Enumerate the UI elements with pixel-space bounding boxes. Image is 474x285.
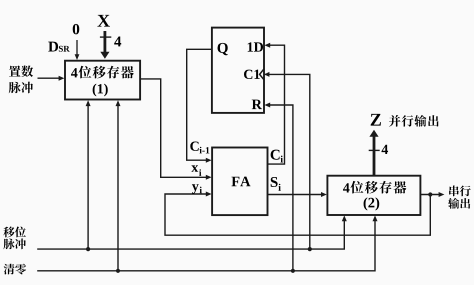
- bus wire X into register 1 (4-bit): [100, 31, 109, 59]
- wire 0/DSR into register 1 top: [75, 40, 80, 60]
- wire serial output from register 2: [420, 192, 444, 197]
- label 串行输出 (serial output): [448, 185, 471, 208]
- shift register U4: 4-bit shift register (2): [327, 176, 420, 215]
- wire flip-flop Q output to FA input Ci-1: [187, 49, 212, 162]
- label Z: [371, 114, 381, 126]
- wire FA sum output Si to register 2 input: [268, 192, 327, 197]
- pin label C1 (flip-flop clock input): [244, 70, 260, 79]
- junction dot shift line / register 1 branch: [86, 247, 90, 251]
- wire load pulse into register 1 left: [38, 76, 65, 81]
- wire clear line up to flip-flop R input: [264, 103, 293, 271]
- label X (parallel data input): [97, 15, 109, 27]
- wire shift pulse branch up to register 1: [86, 100, 91, 249]
- junction dot shift line / C1 wire: [308, 247, 312, 251]
- label 移位脉冲 (shift pulse): [3, 227, 26, 250]
- pin label Q (flip-flop output): [218, 43, 228, 55]
- wire shift pulse horizontal line to register 2 clock: [37, 215, 347, 249]
- wire register 1 output to FA input xi: [140, 79, 212, 180]
- pin label 1D (flip-flop data input): [248, 42, 263, 51]
- bus width tick on Z bus: [369, 149, 380, 151]
- D flip-flop U2 box: [212, 28, 264, 113]
- signal label yi: [192, 184, 202, 193]
- signal label Si: [271, 177, 281, 191]
- wire clear branch up to register 1: [116, 100, 121, 270]
- bus width label 4 on X bus: [114, 37, 121, 47]
- junction dot serial output / feedback: [428, 192, 432, 196]
- label 并行输出 (parallel output): [389, 115, 439, 127]
- pin label R (flip-flop reset input): [252, 100, 262, 109]
- label 清零 (clear): [4, 264, 26, 275]
- junction dot clear line / R wire: [291, 269, 295, 273]
- shift register U1: 4-bit shift register (1): [65, 61, 140, 100]
- wire register 2 serial output feedback to FA input yi: [165, 192, 430, 236]
- bus width tick on X bus: [100, 36, 111, 38]
- wire clear horizontal line to register 2 reset: [37, 215, 377, 270]
- junction dot clear line / register 1 branch: [116, 269, 120, 273]
- label DSR (serial data input): [48, 42, 69, 52]
- wire FA carry output Ci to flip-flop 1D input: [264, 43, 284, 164]
- wire shift pulse line up to flip-flop C1 input: [264, 72, 310, 249]
- dynamic input wedge at C1: [260, 69, 264, 80]
- label 0 (serial input value): [73, 24, 80, 34]
- label 置数脉冲 (load pulse): [9, 65, 33, 93]
- bus wire Z parallel output from register 2 (4-bit): [369, 130, 378, 176]
- signal label xi: [191, 165, 201, 176]
- signal label Ci: [271, 150, 283, 163]
- bus width label 4 on Z bus: [381, 145, 388, 154]
- signal label Ci-1: [190, 142, 209, 154]
- full adder U3: FA box: [212, 148, 267, 216]
